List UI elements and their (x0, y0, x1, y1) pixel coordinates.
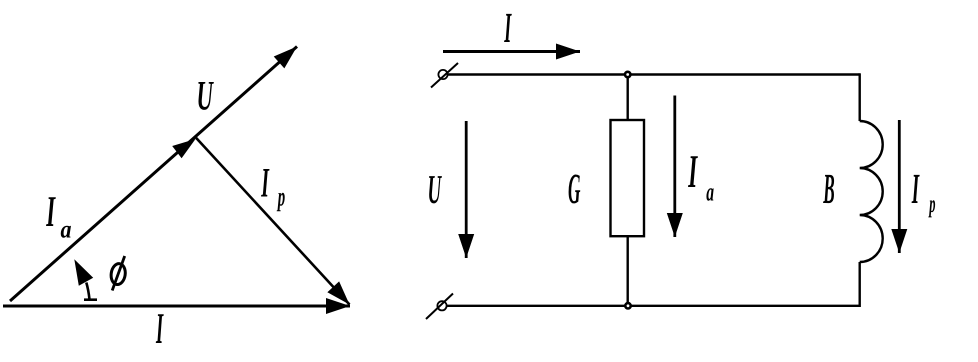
svg-text:I: I (688, 146, 698, 198)
svg-text:U: U (428, 166, 443, 212)
svg-text:I: I (46, 187, 56, 236)
svg-text:I: I (261, 160, 270, 206)
svg-text:p: p (277, 181, 286, 211)
svg-text:U: U (197, 74, 215, 120)
svg-text:G: G (568, 166, 580, 213)
svg-text:a: a (61, 217, 72, 244)
svg-text:p: p (928, 191, 935, 218)
svg-text:I: I (504, 5, 512, 52)
svg-text:I: I (911, 166, 919, 213)
svg-text:I: I (156, 304, 164, 353)
svg-text:a: a (706, 178, 714, 207)
svg-text:B: B (823, 166, 835, 213)
